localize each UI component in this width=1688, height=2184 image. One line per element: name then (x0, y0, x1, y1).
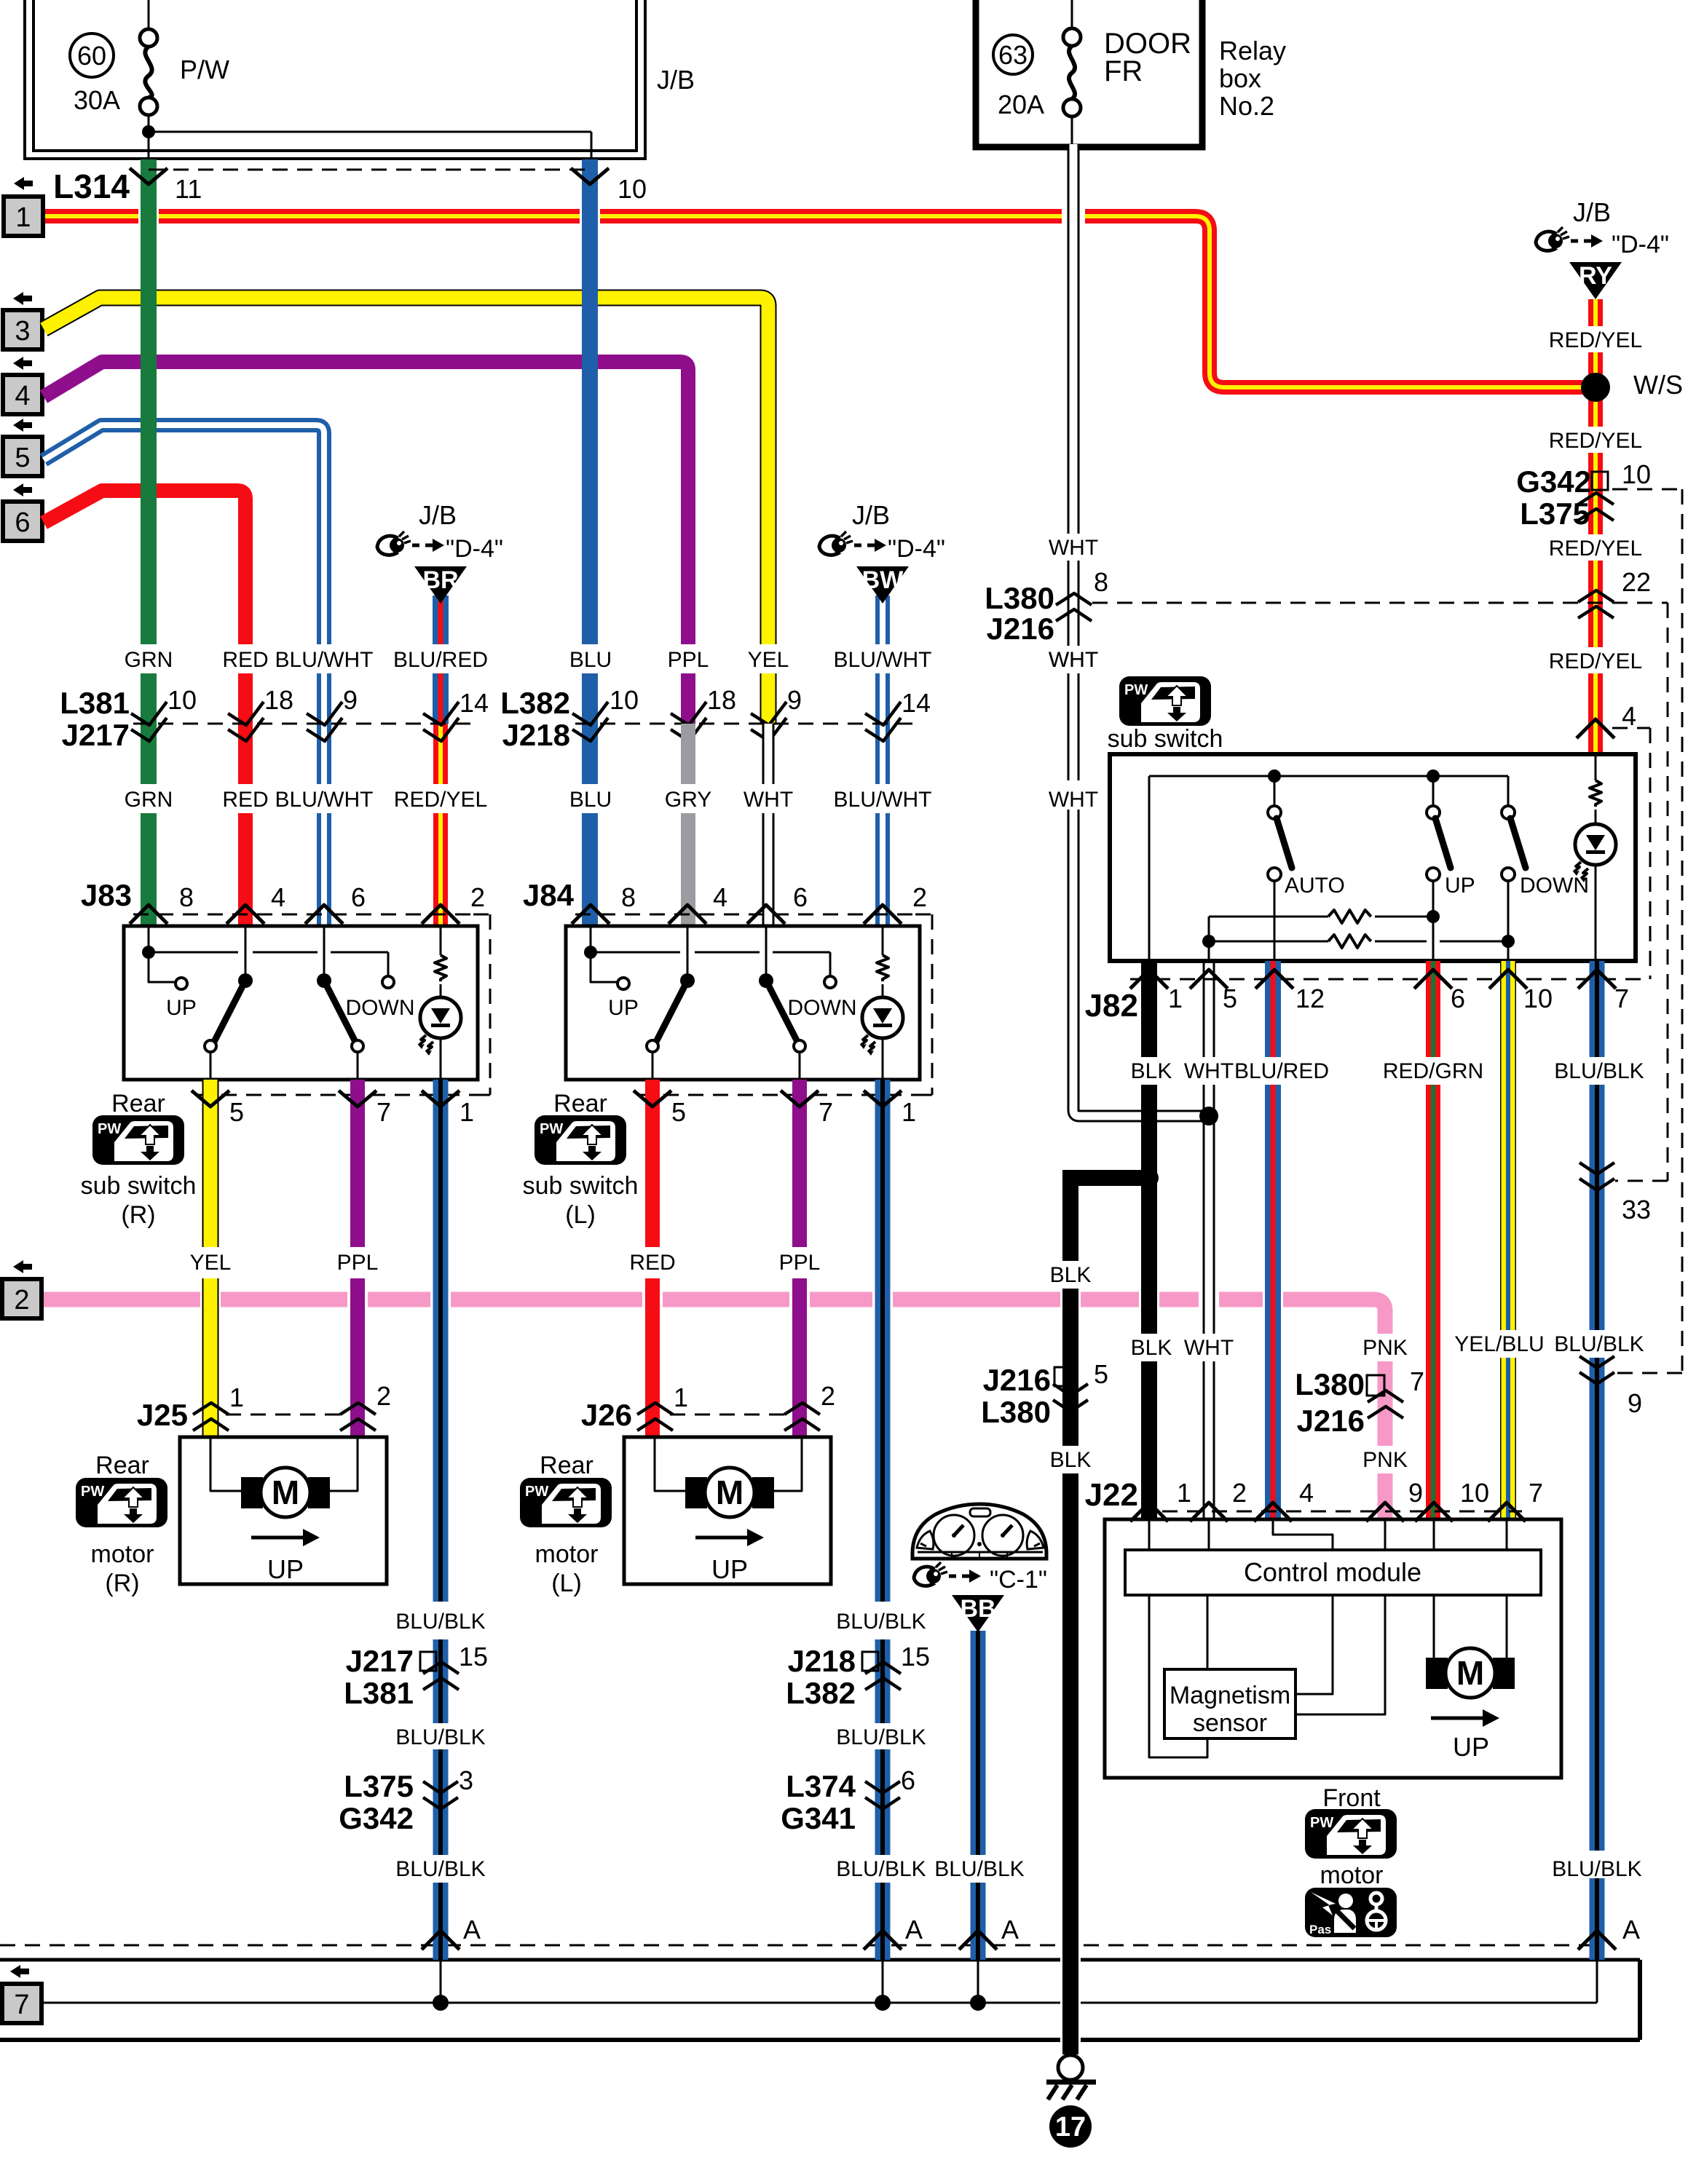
connector J82 (1130, 978, 1650, 981)
bus junction dots (433, 1995, 449, 2011)
RED wire J84 pin5 to J26 (645, 1080, 660, 1247)
svg-text:"D-4": "D-4" (446, 535, 503, 563)
BLU wire from J/B pin 10 (582, 159, 598, 644)
svg-text:9: 9 (787, 685, 802, 715)
svg-text:5: 5 (15, 443, 30, 473)
BLU/WHT wire from connector 5 (44, 425, 324, 644)
svg-text:UP: UP (711, 1554, 748, 1584)
svg-text:box: box (1219, 63, 1261, 93)
svg-text:M: M (1456, 1654, 1484, 1692)
svg-text:L374: L374 (786, 1769, 856, 1803)
svg-text:"C-1": "C-1" (990, 1566, 1047, 1594)
svg-text:11: 11 (175, 174, 202, 204)
J84 internal wiring (590, 926, 592, 952)
svg-text:8: 8 (1094, 567, 1108, 597)
WHT wire below L382 pin 9 (762, 724, 775, 784)
svg-text:18: 18 (707, 685, 736, 715)
svg-text:BLU/BLK: BLU/BLK (836, 1857, 926, 1881)
connector tab 4 (13, 357, 32, 370)
svg-text:W/S: W/S (1633, 370, 1683, 400)
svg-text:RED: RED (222, 648, 268, 672)
J83 switch 2 lever (323, 926, 326, 974)
svg-text:PPL: PPL (668, 648, 709, 672)
svg-text:Magnetism: Magnetism (1170, 1682, 1290, 1709)
svg-text:J217: J217 (62, 718, 130, 752)
svg-text:2: 2 (14, 1285, 29, 1315)
svg-text:1: 1 (15, 202, 31, 233)
svg-text:J/B: J/B (1573, 197, 1611, 227)
svg-text:BW: BW (862, 566, 904, 594)
connector J26 (670, 1414, 786, 1416)
svg-text:2: 2 (1232, 1478, 1247, 1508)
svg-text:6: 6 (793, 882, 808, 912)
svg-text:WHT: WHT (1049, 788, 1098, 812)
svg-text:PW: PW (1124, 682, 1148, 698)
PNK wire vertical to J22 pin9 (1378, 1361, 1393, 1446)
svg-text:FR: FR (1104, 55, 1143, 87)
connector 22 (1578, 590, 1614, 602)
WHT wire J82 pin5 to J22 pin2 (1203, 961, 1215, 1057)
svg-text:J216: J216 (1297, 1404, 1365, 1438)
svg-text:WHT: WHT (744, 788, 793, 812)
connector tab 3 (13, 292, 32, 305)
svg-text:BLU/WHT: BLU/WHT (834, 648, 932, 672)
J84 switch 1 lever (687, 926, 689, 974)
connector tab 6 (13, 483, 32, 496)
svg-text:6: 6 (351, 882, 366, 912)
connector tab 5 (13, 419, 32, 432)
YEL wire lower segment (760, 673, 777, 724)
svg-text:YEL/BLU: YEL/BLU (1454, 1332, 1544, 1356)
J82 connector chevrons (1130, 970, 1168, 989)
svg-text:10: 10 (167, 685, 197, 715)
J84 resistor and LED (882, 926, 884, 955)
svg-text:8: 8 (179, 882, 194, 912)
svg-text:BR: BR (422, 566, 458, 594)
svg-text:17: 17 (1055, 2112, 1086, 2143)
control module box (1105, 1519, 1561, 1778)
sub switch box (1110, 754, 1636, 961)
svg-text:A: A (1622, 1915, 1640, 1944)
svg-text:UP: UP (608, 996, 639, 1020)
svg-text:L380: L380 (985, 581, 1054, 615)
control module UP arrow (1431, 1717, 1486, 1720)
svg-text:1: 1 (1168, 984, 1183, 1013)
svg-text:BLU/WHT: BLU/WHT (275, 648, 374, 672)
YEL wire J83 pin5 to J25 (202, 1080, 219, 1247)
svg-text:RED: RED (629, 1251, 675, 1275)
svg-text:9: 9 (1408, 1478, 1423, 1508)
svg-text:BLU/BLK: BLU/BLK (934, 1857, 1024, 1881)
connector 9 (1579, 1356, 1614, 1368)
svg-text:BLU/RED: BLU/RED (1234, 1059, 1329, 1083)
svg-text:5: 5 (1094, 1359, 1108, 1389)
svg-text:4: 4 (15, 381, 30, 411)
svg-text:Rear: Rear (540, 1452, 593, 1479)
fuse 60 P/W fuse symbol (148, 0, 150, 29)
svg-text:2: 2 (912, 882, 927, 912)
svg-text:UP: UP (1445, 874, 1475, 898)
motor J25 UP arrow (251, 1536, 306, 1540)
svg-text:"D-4": "D-4" (1612, 231, 1669, 258)
svg-text:PPL: PPL (779, 1251, 821, 1275)
ground symbol 17 (1058, 2055, 1083, 2080)
svg-text:5: 5 (671, 1097, 686, 1127)
GRY wire below L382 pin 18 (681, 724, 695, 784)
svg-text:YEL: YEL (190, 1251, 232, 1275)
svg-text:3: 3 (15, 316, 30, 347)
RED/GRN wire J82 pin6 to J22 pin10 (1426, 961, 1440, 1057)
svg-text:PW: PW (98, 1121, 121, 1137)
svg-text:PW: PW (525, 1484, 548, 1500)
svg-text:Rear: Rear (111, 1090, 165, 1117)
GRN wire from fuse 60 (141, 159, 157, 644)
svg-text:DOWN: DOWN (788, 996, 857, 1020)
svg-text:BLK: BLK (1131, 1059, 1172, 1083)
svg-text:L375: L375 (344, 1769, 414, 1803)
svg-text:4: 4 (1299, 1478, 1314, 1508)
motor J25 box (180, 1437, 387, 1584)
C-1 reference eye (914, 1562, 947, 1586)
J83 switch 1 lever (245, 926, 247, 974)
svg-text:BLK: BLK (1131, 1336, 1172, 1360)
instrument cluster icon (912, 1504, 1046, 1559)
svg-text:BLU/BLK: BLU/BLK (395, 1610, 485, 1634)
svg-text:33: 33 (1622, 1195, 1651, 1224)
svg-text:DOWN: DOWN (1520, 874, 1589, 898)
svg-text:4: 4 (1622, 701, 1636, 731)
svg-text:L381: L381 (60, 686, 130, 720)
ground bus bottom (0, 1944, 1060, 1947)
svg-text:10: 10 (1523, 984, 1553, 1013)
svg-text:J82: J82 (1085, 988, 1138, 1024)
svg-text:No.2: No.2 (1219, 91, 1274, 121)
svg-text:30A: 30A (74, 85, 120, 115)
svg-text:1: 1 (460, 1097, 474, 1127)
J83 connector row bottom (197, 1094, 478, 1096)
svg-text:J/B: J/B (657, 65, 695, 95)
PNK wire from connector 2 (42, 1299, 1385, 1334)
svg-text:Control module: Control module (1244, 1557, 1421, 1587)
svg-text:BLU: BLU (569, 788, 612, 812)
svg-text:(L): (L) (551, 1570, 582, 1597)
svg-text:J83: J83 (81, 878, 132, 912)
junction block J/B box (25, 0, 645, 159)
svg-text:Relay: Relay (1219, 36, 1286, 66)
triangle BB (971, 1631, 986, 1855)
connector tab 2 (13, 1260, 32, 1273)
RED/YEL wire below L381 pin 14 (433, 724, 448, 784)
svg-text:PNK: PNK (1362, 1448, 1408, 1472)
svg-text:BLU/WHT: BLU/WHT (275, 788, 374, 812)
svg-text:5: 5 (229, 1097, 244, 1127)
svg-text:A: A (905, 1915, 923, 1944)
AUTO switch (1268, 806, 1281, 819)
svg-text:WHT: WHT (1184, 1059, 1234, 1083)
switch J83 box (124, 926, 478, 1080)
svg-text:RED/GRN: RED/GRN (1383, 1059, 1483, 1083)
J83 internal wiring (148, 926, 150, 952)
svg-text:RY: RY (1579, 262, 1612, 290)
svg-text:RED: RED (222, 788, 268, 812)
svg-text:4: 4 (271, 882, 285, 912)
motor J25 M symbol (241, 1477, 263, 1508)
svg-text:BLU/BLK: BLU/BLK (836, 1610, 926, 1634)
svg-text:PPL: PPL (337, 1251, 379, 1275)
svg-text:7: 7 (376, 1097, 391, 1127)
W/S splice dot (1581, 373, 1610, 402)
svg-text:GRY: GRY (665, 788, 711, 812)
svg-text:3: 3 (459, 1765, 473, 1795)
svg-text:BLU/WHT: BLU/WHT (834, 788, 932, 812)
svg-text:G342: G342 (339, 1801, 414, 1835)
WHT wire from fuse 63 (1068, 144, 1080, 534)
svg-text:sub switch: sub switch (1108, 725, 1223, 753)
svg-text:2: 2 (470, 882, 485, 912)
svg-text:Pas: Pas (1309, 1923, 1331, 1936)
svg-text:10: 10 (1460, 1478, 1489, 1508)
J84 connector row bottom (639, 1094, 920, 1096)
svg-text:1: 1 (674, 1382, 688, 1412)
relay box No.2 (976, 0, 1202, 147)
connector J25 (226, 1414, 342, 1416)
svg-text:15: 15 (901, 1642, 930, 1671)
svg-text:BLU/BLK: BLU/BLK (395, 1725, 485, 1749)
svg-text:motor: motor (91, 1540, 154, 1568)
svg-text:BLU/RED: BLU/RED (393, 648, 488, 672)
sub switch LED (1595, 754, 1597, 780)
sub switch inner top rail (1149, 775, 1508, 778)
svg-text:GRN: GRN (125, 788, 173, 812)
svg-text:PW: PW (81, 1484, 104, 1500)
svg-text:M: M (272, 1473, 299, 1511)
RED wire from connector 6 (44, 491, 245, 644)
fuse 63 DOOR FR fuse symbol (1071, 0, 1073, 28)
svg-text:WHT: WHT (1049, 648, 1098, 672)
svg-text:(R): (R) (121, 1201, 155, 1229)
svg-text:J218: J218 (502, 718, 570, 752)
svg-text:7: 7 (819, 1097, 833, 1127)
svg-text:2: 2 (376, 1381, 391, 1411)
svg-text:G342: G342 (1516, 464, 1591, 499)
J83 resistor and LED (440, 926, 442, 955)
BLK branch to ground (1062, 1170, 1149, 1186)
svg-text:BLU/BLK: BLU/BLK (1554, 1059, 1644, 1083)
svg-text:18: 18 (264, 685, 293, 715)
svg-text:motor: motor (1320, 1861, 1384, 1889)
svg-text:J/B: J/B (419, 500, 457, 530)
svg-text:Rear: Rear (553, 1090, 607, 1117)
svg-text:J84: J84 (523, 878, 575, 912)
Pas icon (1305, 1888, 1397, 1937)
svg-text:L375: L375 (1520, 496, 1590, 531)
svg-text:UP: UP (1453, 1732, 1489, 1762)
connector 33 (1579, 1163, 1614, 1174)
svg-text:(R): (R) (105, 1570, 139, 1597)
svg-text:UP: UP (267, 1554, 304, 1584)
connector L382/J218 (575, 723, 918, 725)
BLU/BLK wire J84 pin1 down to bus (875, 1080, 891, 1602)
svg-text:UP: UP (166, 996, 197, 1020)
J84 switch 2 lever (765, 926, 768, 974)
PPL wire from connector 4 (44, 362, 688, 644)
svg-text:A: A (463, 1915, 481, 1944)
svg-text:G341: G341 (781, 1801, 856, 1835)
svg-text:YEL: YEL (748, 648, 789, 672)
svg-text:motor: motor (535, 1540, 599, 1568)
svg-text:A: A (1001, 1915, 1019, 1944)
WHT jog to J82 pin 5 wire (1073, 1104, 1209, 1116)
svg-text:20A: 20A (998, 90, 1044, 119)
svg-text:J/B: J/B (852, 500, 890, 530)
J84 connector row top (575, 914, 915, 916)
svg-text:RED/YEL: RED/YEL (1549, 429, 1642, 453)
svg-text:PW: PW (540, 1121, 563, 1137)
svg-text:Front: Front (1322, 1784, 1381, 1812)
connector L314 (149, 169, 590, 171)
svg-text:BLU/BLK: BLU/BLK (836, 1725, 926, 1749)
svg-text:1: 1 (902, 1097, 916, 1127)
BLU/BLK wire J83 pin1 down to bus (433, 1080, 449, 1602)
svg-text:sensor: sensor (1193, 1709, 1267, 1737)
svg-text:Rear: Rear (95, 1452, 149, 1479)
fuse 63 circle label (993, 35, 1033, 74)
BLU/RED wire J82 pin12 to J22 pin4 (1265, 961, 1281, 1057)
svg-text:DOWN: DOWN (346, 996, 415, 1020)
bus A connectors (422, 1931, 460, 1950)
svg-text:GRN: GRN (125, 648, 173, 672)
svg-text:J25: J25 (137, 1398, 188, 1432)
svg-text:(L): (L) (565, 1201, 596, 1229)
triangle BR (433, 596, 449, 644)
svg-text:63: 63 (998, 40, 1028, 70)
svg-text:60: 60 (77, 41, 106, 71)
svg-text:sub switch: sub switch (81, 1172, 197, 1200)
sub switch resistors (1208, 917, 1210, 941)
sub switch icon front (1119, 676, 1211, 726)
BLK wire J82 pin1 (1141, 961, 1157, 1057)
svg-text:L314: L314 (53, 167, 130, 205)
svg-text:AUTO: AUTO (1285, 874, 1345, 898)
svg-text:BB: BB (960, 1595, 995, 1623)
triangle RY (1588, 299, 1603, 326)
svg-text:P/W: P/W (180, 55, 229, 84)
svg-text:BLK: BLK (1050, 1448, 1092, 1472)
svg-text:J217: J217 (346, 1644, 414, 1678)
svg-text:1: 1 (229, 1382, 244, 1412)
svg-text:J216: J216 (987, 612, 1054, 646)
YEL/BLU wire J82 pin10 to J22 pin7 (1500, 961, 1516, 1330)
triangle BW (875, 596, 890, 644)
svg-text:WHT: WHT (1049, 536, 1098, 560)
svg-text:6: 6 (1451, 984, 1465, 1013)
PPL wire J84 pin7 to J26 (792, 1080, 807, 1247)
connector J22 (1162, 1511, 1522, 1513)
svg-text:6: 6 (15, 507, 30, 538)
connector tab 1 (14, 177, 33, 190)
svg-text:BLK: BLK (1050, 1263, 1092, 1287)
svg-text:14: 14 (460, 688, 489, 718)
tab 7 connector (10, 1965, 29, 1978)
svg-text:J22: J22 (1085, 1477, 1138, 1513)
svg-text:L382: L382 (500, 686, 570, 720)
svg-text:L380: L380 (1295, 1367, 1365, 1401)
svg-text:4: 4 (713, 882, 727, 912)
svg-text:7: 7 (1529, 1478, 1543, 1508)
connector 4 into sub switch (1577, 719, 1614, 738)
svg-text:L382: L382 (786, 1676, 856, 1710)
svg-text:M: M (716, 1473, 744, 1511)
svg-text:L381: L381 (344, 1676, 414, 1710)
UP switch (1427, 806, 1440, 819)
svg-text:sub switch: sub switch (523, 1172, 639, 1200)
svg-text:L380: L380 (981, 1395, 1051, 1429)
svg-text:1: 1 (1177, 1478, 1191, 1508)
bus inner wire (44, 2002, 1060, 2004)
svg-text:2: 2 (821, 1381, 835, 1411)
svg-text:RED/YEL: RED/YEL (1549, 328, 1642, 352)
motor J26 box (624, 1437, 831, 1584)
svg-text:BLU: BLU (569, 648, 612, 672)
svg-text:RED/YEL: RED/YEL (1549, 537, 1642, 561)
svg-text:10: 10 (618, 174, 647, 204)
svg-text:12: 12 (1295, 984, 1325, 1013)
svg-text:14: 14 (902, 688, 931, 718)
DOWN switch (1502, 806, 1515, 819)
svg-text:6: 6 (901, 1765, 915, 1795)
svg-text:7: 7 (1614, 984, 1629, 1013)
svg-text:7: 7 (14, 1990, 29, 2020)
svg-text:WHT: WHT (1184, 1336, 1234, 1360)
svg-text:RED/YEL: RED/YEL (394, 788, 487, 812)
RED/YEL power wire from connector 1 (43, 216, 1596, 387)
svg-text:BLU/BLK: BLU/BLK (395, 1857, 485, 1881)
svg-text:9: 9 (1628, 1388, 1642, 1418)
svg-text:10: 10 (1622, 459, 1651, 489)
control module label box (1125, 1550, 1541, 1595)
svg-text:15: 15 (459, 1642, 488, 1671)
svg-text:PNK: PNK (1362, 1336, 1408, 1360)
switch J84 box (566, 926, 920, 1080)
svg-text:J26: J26 (581, 1398, 632, 1432)
dashed reference lines right edge (1612, 488, 1682, 491)
motor J26 UP arrow (695, 1536, 750, 1540)
motor J26 M symbol (685, 1477, 707, 1508)
J83 J84 lower connector chevrons (192, 1091, 229, 1107)
connector L381/J217 (133, 723, 473, 725)
PPL wire J83 pin7 to J25 (350, 1080, 365, 1247)
J83 connector row top (133, 914, 473, 916)
svg-text:J216: J216 (983, 1363, 1051, 1397)
BLU/BLK wire J82 pin7 down to bus (1590, 961, 1605, 1057)
svg-text:BLU/BLK: BLU/BLK (1554, 1332, 1644, 1356)
svg-text:10: 10 (610, 685, 639, 715)
wire inside J/B from fuse to pin 10 (149, 131, 591, 133)
svg-text:8: 8 (621, 882, 636, 912)
svg-text:7: 7 (1410, 1366, 1424, 1396)
svg-text:9: 9 (343, 685, 358, 715)
YEL wire from connector 3 (44, 298, 768, 644)
svg-text:BLU/BLK: BLU/BLK (1552, 1857, 1641, 1881)
svg-text:"D-4": "D-4" (888, 535, 945, 563)
control module motor (1433, 1595, 1435, 1658)
svg-text:RED/YEL: RED/YEL (1549, 649, 1642, 673)
control module internal wires (1148, 1519, 1151, 1550)
svg-text:J218: J218 (788, 1644, 856, 1678)
svg-text:22: 22 (1622, 567, 1651, 597)
svg-text:PW: PW (1310, 1815, 1333, 1831)
magnetism sensor box (1164, 1669, 1295, 1738)
